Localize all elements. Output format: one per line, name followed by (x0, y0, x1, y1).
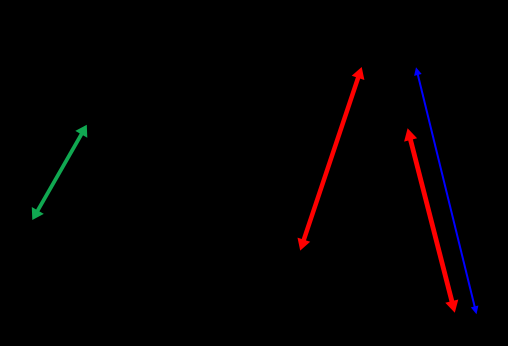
blue double-headed arrow (far right) (414, 67, 478, 314)
red double-headed arrow R1 (center) (298, 67, 365, 251)
green double-headed arrow (lower-left) (32, 125, 88, 220)
red double-headed arrow R2 (right) (404, 128, 458, 312)
